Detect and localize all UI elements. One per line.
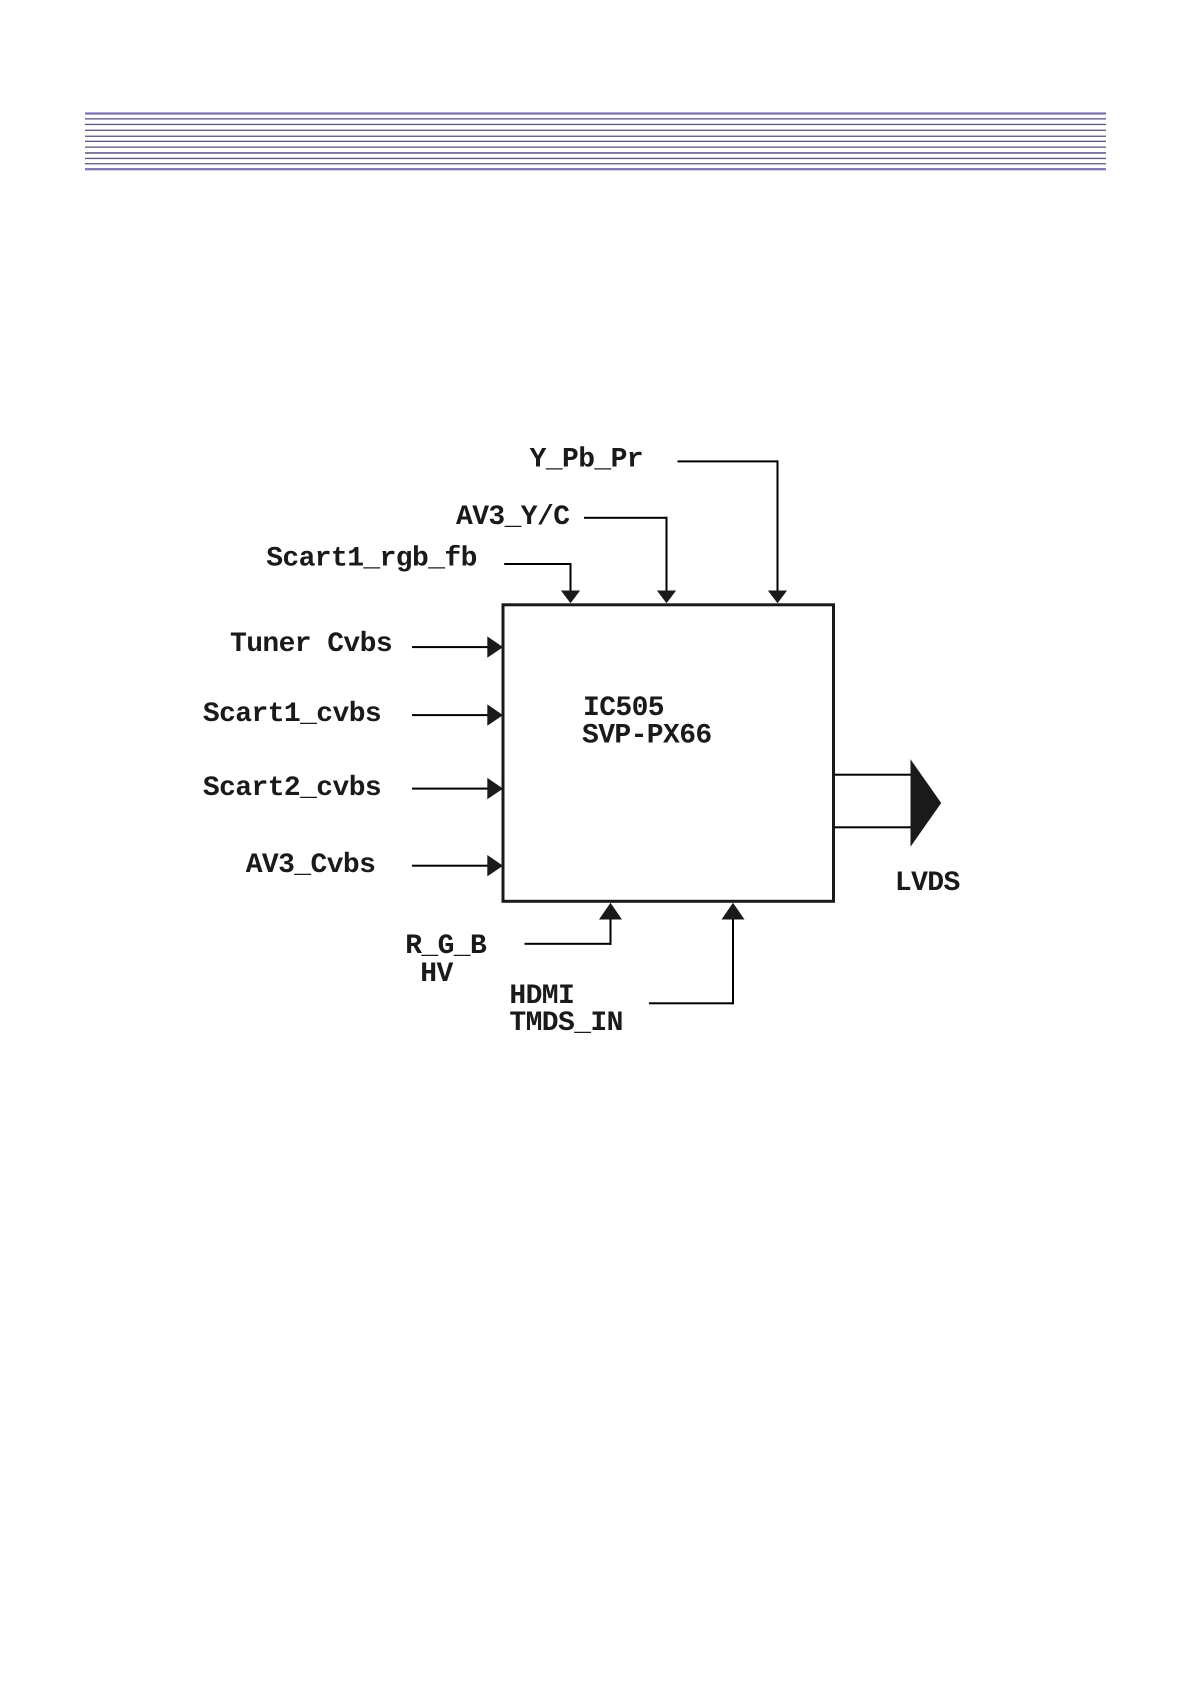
- arrowhead Scart1_rgb_fb into top edge: [561, 591, 580, 604]
- wire LVDS upper: [835, 774, 912, 776]
- svg-text:AV3_Cvbs: AV3_Cvbs: [246, 850, 376, 881]
- wire Scart2_cvbs: [412, 788, 488, 790]
- svg-text:HV: HV: [420, 959, 453, 990]
- arrowhead HDMI into bottom edge: [722, 903, 745, 920]
- svg-text:R_G_B: R_G_B: [405, 931, 487, 962]
- wire AV3_Y/C horizontal: [584, 517, 667, 519]
- wire HDMI horizontal: [649, 1002, 734, 1004]
- arrowhead Tuner Cvbs into left edge: [487, 636, 503, 657]
- block IC505 SVP-PX66: [503, 605, 834, 902]
- wire Tuner Cvbs: [412, 646, 488, 648]
- arrowhead AV3_Y/C into top edge: [657, 591, 676, 604]
- wire LVDS lower: [835, 826, 912, 828]
- arrowhead Y_Pb_Pr into top edge: [768, 591, 787, 604]
- svg-text:IC505: IC505: [583, 693, 664, 724]
- wire HDMI vertical: [732, 919, 734, 1004]
- arrowhead AV3_Cvbs into left edge: [487, 855, 503, 876]
- arrowhead Scart2_cvbs into left edge: [487, 778, 503, 799]
- wire AV3_Y/C vertical: [666, 517, 668, 592]
- arrowhead Scart1_cvbs into left edge: [487, 704, 503, 725]
- arrowhead R_G_B into bottom edge: [599, 903, 622, 920]
- wire Y_Pb_Pr vertical: [777, 460, 779, 591]
- wire AV3_Cvbs: [412, 865, 488, 867]
- header rule lines: [85, 112, 1106, 170]
- svg-text:Y_Pb_Pr: Y_Pb_Pr: [530, 444, 643, 475]
- wire Scart1_rgb_fb vertical: [570, 563, 572, 592]
- svg-text:Tuner Cvbs: Tuner Cvbs: [230, 629, 392, 660]
- wire Scart1_rgb_fb horizontal: [504, 563, 571, 565]
- svg-text:SVP-PX66: SVP-PX66: [582, 721, 712, 752]
- svg-text:LVDS: LVDS: [895, 868, 960, 899]
- wire R_G_B horizontal: [525, 943, 612, 945]
- arrowhead LVDS output triangle: [911, 759, 942, 847]
- svg-text:AV3_Y/C: AV3_Y/C: [456, 502, 570, 533]
- wire Scart1_cvbs: [412, 714, 488, 716]
- svg-text:Scart1_rgb_fb: Scart1_rgb_fb: [266, 544, 477, 575]
- svg-text:Scart2_cvbs: Scart2_cvbs: [203, 773, 381, 804]
- svg-text:TMDS_IN: TMDS_IN: [509, 1008, 622, 1039]
- svg-text:Scart1_cvbs: Scart1_cvbs: [203, 699, 381, 730]
- wire Y_Pb_Pr horizontal: [678, 460, 779, 462]
- wire R_G_B vertical: [610, 919, 612, 945]
